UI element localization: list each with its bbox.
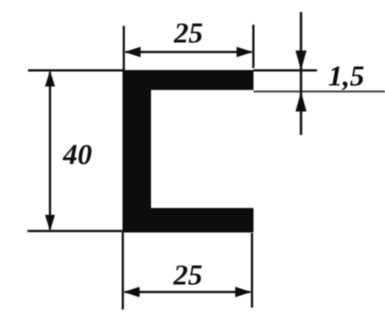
svg-text:25: 25 — [173, 260, 203, 292]
svg-text:25: 25 — [173, 18, 203, 50]
svg-text:1,5: 1,5 — [328, 61, 364, 93]
dimension 40: bottom arrowhead — [45, 215, 55, 231]
dimension 25 top: right extension line — [252, 25, 254, 68]
dimension 1,5: upper arrowhead (down) — [296, 51, 307, 71]
dimension 25 bottom: left extension line — [122, 233, 124, 310]
dimension 40: top arrowhead — [45, 70, 55, 86]
dimension 25 top: dimension line — [126, 51, 252, 53]
dimension 1,5: leader line — [300, 12, 303, 135]
dimension 25 bottom: right arrowhead — [235, 287, 251, 298]
dimension 40: bottom extension line — [28, 230, 124, 232]
dimension 40: top extension line — [28, 69, 124, 71]
dimension 25 top: left arrowhead — [125, 47, 141, 58]
dimension 25 top: left extension line — [123, 26, 125, 70]
channel profile body — [123, 70, 254, 233]
dimension 25 bottom: dimension line — [125, 291, 251, 293]
dimension 40: dimension line — [49, 72, 51, 230]
dimension 25 top: right arrowhead — [237, 47, 253, 58]
dimension 1,5: lower arrowhead (up) — [296, 92, 307, 112]
dimension 1,5: bottom extension line — [254, 91, 385, 93]
svg-text:40: 40 — [62, 139, 92, 171]
dimension 1,5: top extension line — [254, 69, 318, 71]
dimension 25 bottom: left arrowhead — [124, 287, 140, 298]
dimension 25 bottom: right extension line — [251, 233, 253, 308]
